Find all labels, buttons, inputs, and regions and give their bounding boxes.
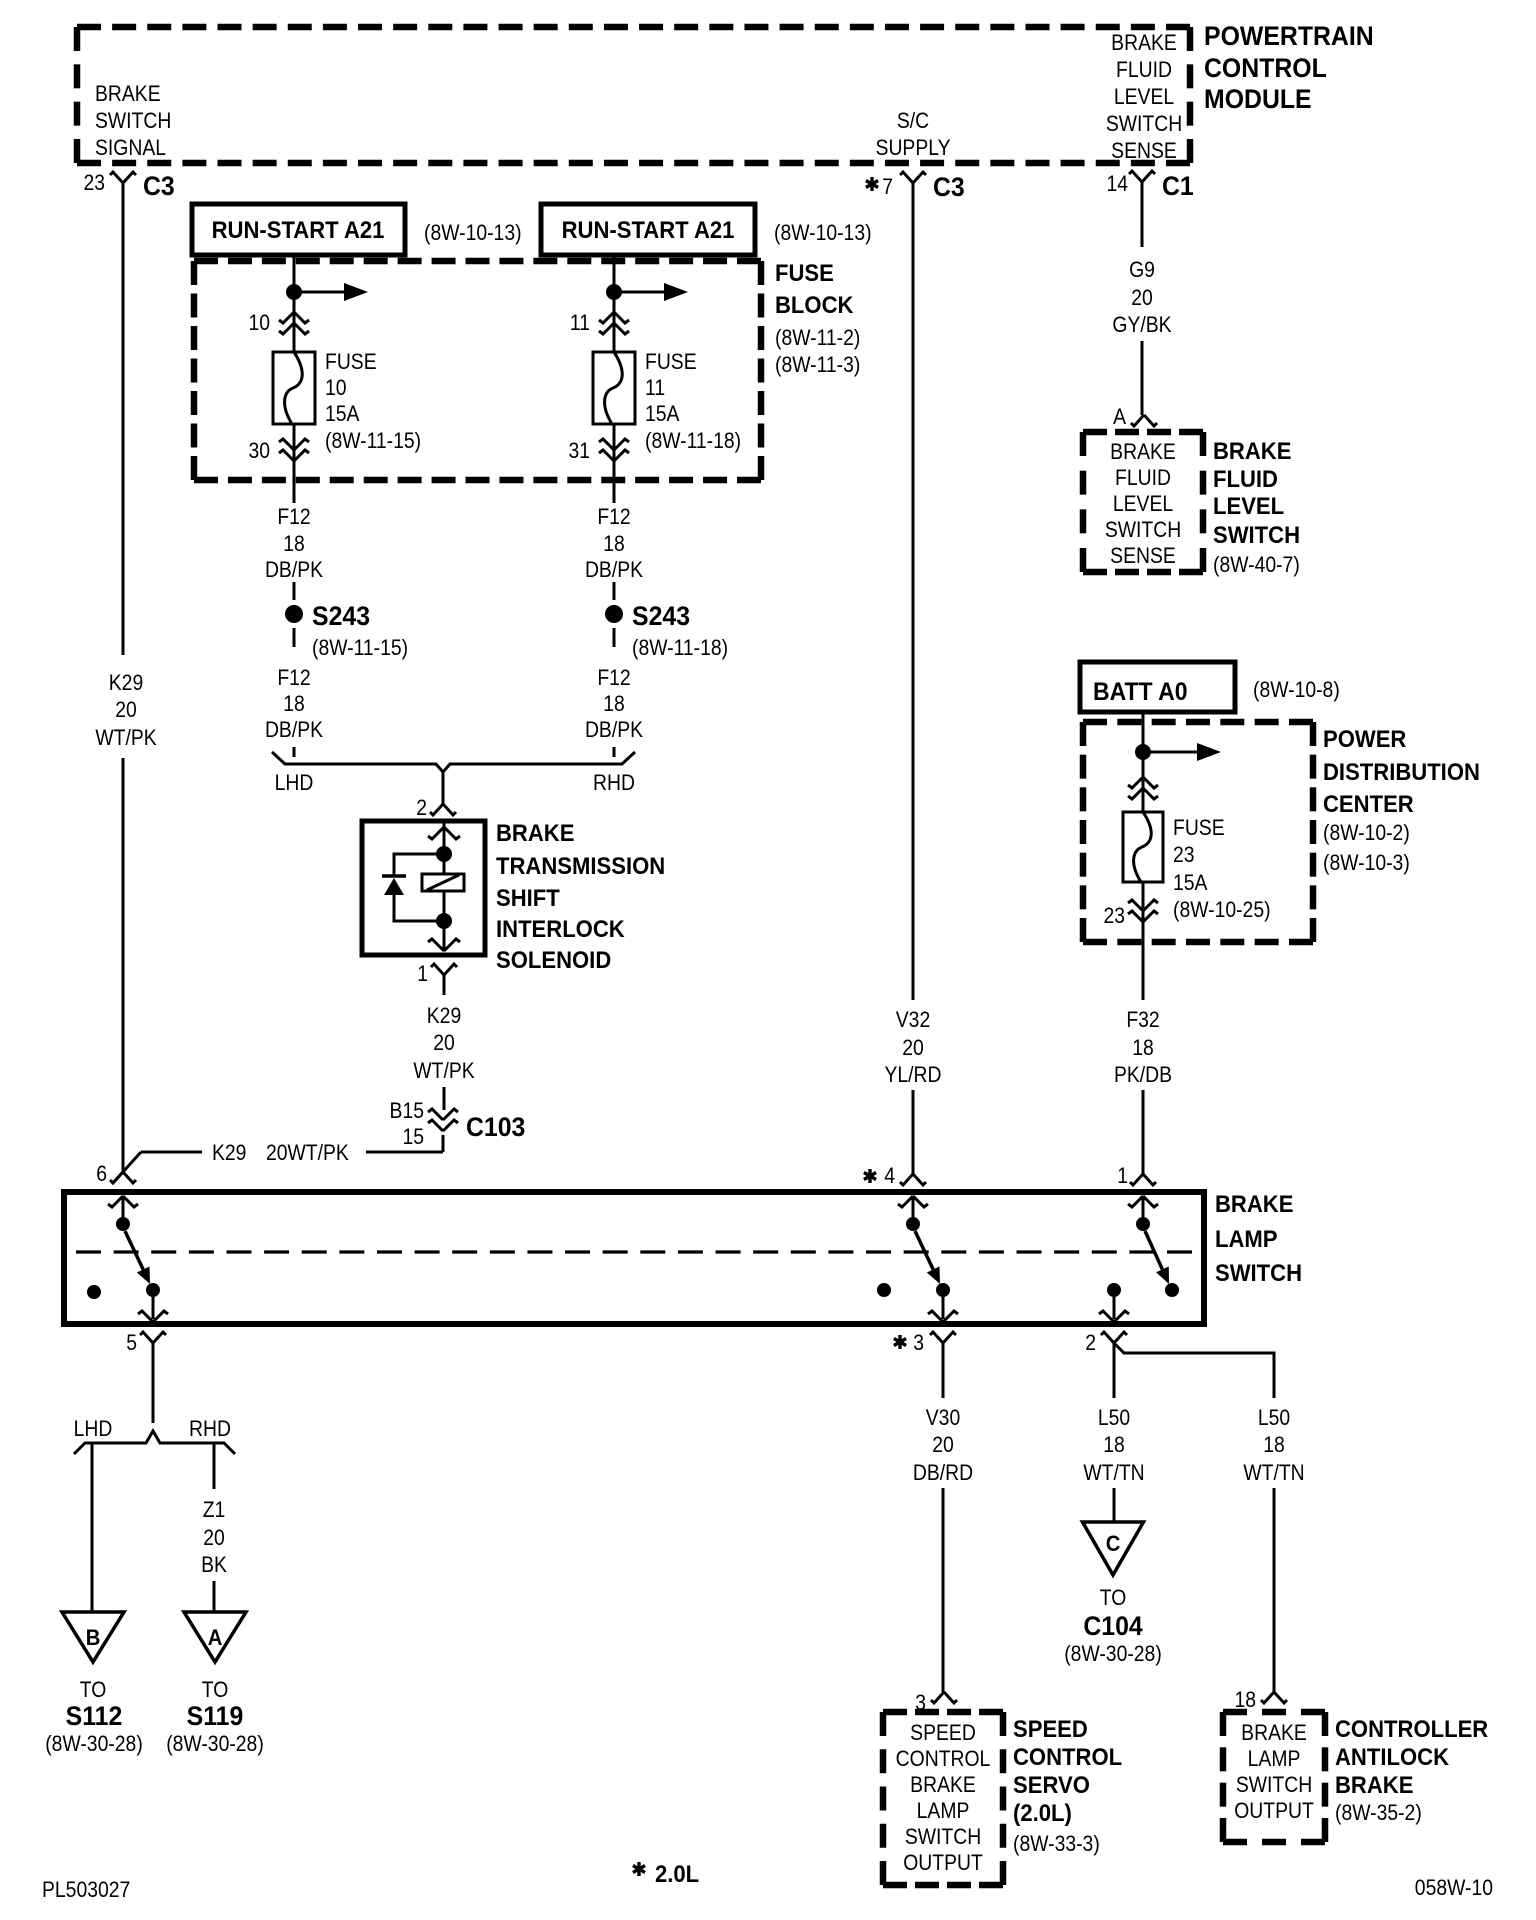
svg-text:CONTROLLER: CONTROLLER [1335,1715,1489,1742]
svg-text:A: A [1113,405,1126,429]
svg-text:SWITCH: SWITCH [95,109,171,133]
svg-text:18: 18 [1103,1433,1125,1457]
svg-text:15A: 15A [1173,871,1208,895]
svg-text:C3: C3 [933,173,965,202]
svg-text:(8W-30-28): (8W-30-28) [1064,1642,1162,1666]
svg-text:14: 14 [1106,172,1128,196]
svg-text:B15: B15 [390,1099,424,1123]
svg-text:18: 18 [283,532,305,556]
svg-text:DISTRIBUTION: DISTRIBUTION [1323,758,1480,785]
svg-text:(8W-30-28): (8W-30-28) [45,1732,143,1756]
svg-text:3: 3 [913,1331,924,1355]
svg-text:DB/PK: DB/PK [585,558,643,582]
svg-text:SOLENOID: SOLENOID [496,946,611,973]
svg-text:S119: S119 [187,1702,244,1731]
svg-text:BRAKE: BRAKE [1110,440,1176,464]
svg-text:F12: F12 [277,666,310,690]
svg-text:A: A [208,1626,223,1650]
svg-text:20: 20 [433,1031,455,1055]
svg-text:POWER: POWER [1323,725,1407,752]
svg-text:YL/RD: YL/RD [884,1063,941,1087]
svg-text:20: 20 [203,1526,225,1550]
svg-text:FLUID: FLUID [1213,465,1278,492]
svg-text:18: 18 [1263,1433,1285,1457]
svg-text:F12: F12 [277,505,310,529]
svg-text:20: 20 [902,1036,924,1060]
svg-text:1: 1 [1117,1164,1128,1188]
svg-text:18: 18 [1234,1688,1256,1712]
svg-text:(8W-10-13): (8W-10-13) [774,221,872,245]
svg-text:(8W-40-7): (8W-40-7) [1213,553,1300,577]
svg-text:PL503027: PL503027 [42,1878,130,1902]
svg-text:BRAKE: BRAKE [1241,1721,1307,1745]
svg-text:20: 20 [115,698,137,722]
svg-text:WT/PK: WT/PK [413,1059,474,1083]
svg-text:F12: F12 [597,666,630,690]
svg-text:10: 10 [248,311,270,335]
svg-text:C: C [1106,1532,1121,1556]
svg-text:18: 18 [603,692,625,716]
svg-text:23: 23 [1173,843,1195,867]
svg-text:TO: TO [1100,1586,1127,1610]
svg-text:S112: S112 [66,1702,123,1731]
svg-text:LEVEL: LEVEL [1213,492,1284,519]
svg-text:5: 5 [126,1331,137,1355]
svg-text:SERVO: SERVO [1013,1771,1090,1798]
svg-text:LEVEL: LEVEL [1113,492,1173,516]
svg-text:SWITCH: SWITCH [1106,112,1182,136]
svg-text:FUSE: FUSE [1173,816,1225,840]
svg-text:SWITCH: SWITCH [1105,518,1181,542]
svg-text:1: 1 [417,962,428,986]
svg-text:(8W-10-8): (8W-10-8) [1253,678,1340,702]
svg-text:SWITCH: SWITCH [1215,1259,1302,1286]
svg-text:WT/TN: WT/TN [1083,1461,1144,1485]
svg-text:(8W-35-2): (8W-35-2) [1335,1801,1422,1825]
svg-text:23: 23 [83,171,105,195]
svg-text:(8W-30-28): (8W-30-28) [166,1732,264,1756]
svg-text:F32: F32 [1126,1008,1159,1032]
svg-text:(8W-11-2): (8W-11-2) [775,326,860,350]
svg-text:TRANSMISSION: TRANSMISSION [496,852,665,879]
svg-text:10: 10 [325,376,347,400]
svg-text:BK: BK [201,1553,227,1577]
svg-text:RHD: RHD [593,771,635,795]
svg-text:DB/PK: DB/PK [265,718,323,742]
svg-text:WT/TN: WT/TN [1243,1461,1304,1485]
svg-text:BRAKE: BRAKE [1335,1771,1413,1798]
svg-text:(8W-11-18): (8W-11-18) [645,429,741,453]
svg-text:BATT A0: BATT A0 [1093,678,1188,706]
svg-text:LAMP: LAMP [1215,1225,1278,1252]
svg-text:CONTROL: CONTROL [1204,54,1327,83]
svg-text:31: 31 [568,439,590,463]
svg-text:15A: 15A [645,402,680,426]
svg-text:(8W-10-25): (8W-10-25) [1173,898,1271,922]
svg-text:DB/RD: DB/RD [913,1461,973,1485]
svg-text:K29: K29 [427,1004,461,1028]
svg-text:TO: TO [202,1678,229,1702]
svg-text:20: 20 [1131,286,1153,310]
svg-text:ANTILOCK: ANTILOCK [1335,1743,1449,1770]
svg-text:FUSE: FUSE [645,350,697,374]
svg-text:V30: V30 [926,1406,960,1430]
svg-text:MODULE: MODULE [1204,85,1312,114]
svg-text:(8W-33-3): (8W-33-3) [1013,1832,1100,1856]
svg-text:SHIFT: SHIFT [496,884,560,911]
svg-text:S243: S243 [632,602,690,631]
svg-text:OUTPUT: OUTPUT [903,1851,983,1875]
svg-text:GY/BK: GY/BK [1112,313,1171,337]
svg-text:F12: F12 [597,505,630,529]
svg-text:SIGNAL: SIGNAL [95,136,166,160]
svg-text:LAMP: LAMP [917,1799,970,1823]
svg-text:18: 18 [1132,1036,1154,1060]
svg-text:FLUID: FLUID [1115,466,1171,490]
svg-text:CONTROL: CONTROL [1013,1743,1122,1770]
svg-text:DB/PK: DB/PK [265,558,323,582]
svg-text:(8W-11-15): (8W-11-15) [312,636,408,660]
svg-text:G9: G9 [1129,258,1155,282]
svg-text:LHD: LHD [74,1417,113,1441]
svg-text:SWITCH: SWITCH [1236,1773,1312,1797]
svg-text:CONTROL: CONTROL [896,1747,991,1771]
svg-text:S/C: S/C [897,109,929,133]
svg-text:V32: V32 [896,1008,930,1032]
svg-text:6: 6 [96,1162,107,1186]
svg-text:OUTPUT: OUTPUT [1234,1799,1314,1823]
svg-text:WT/PK: WT/PK [95,726,156,750]
svg-text:(8W-11-3): (8W-11-3) [775,353,860,377]
svg-text:11: 11 [570,311,590,335]
svg-text:L50: L50 [1098,1406,1130,1430]
svg-text:DB/PK: DB/PK [585,718,643,742]
svg-text:BRAKE: BRAKE [1111,31,1177,55]
svg-text:L50: L50 [1258,1406,1290,1430]
svg-text:FUSE: FUSE [775,259,834,286]
svg-text:TO: TO [80,1678,107,1702]
svg-text:LHD: LHD [275,771,314,795]
svg-text:RHD: RHD [189,1417,231,1441]
svg-text:11: 11 [645,376,665,400]
svg-text:SENSE: SENSE [1111,139,1177,163]
svg-text:(8W-10-13): (8W-10-13) [424,221,522,245]
svg-text:15: 15 [402,1125,424,1149]
svg-text:2.0L: 2.0L [655,1860,699,1887]
svg-text:LEVEL: LEVEL [1114,85,1174,109]
svg-text:K29: K29 [212,1141,246,1165]
svg-text:BRAKE: BRAKE [95,82,161,106]
svg-text:RUN-START A21: RUN-START A21 [212,216,385,243]
svg-text:(8W-10-3): (8W-10-3) [1323,851,1410,875]
svg-text:(2.0L): (2.0L) [1013,1799,1072,1826]
svg-text:(8W-11-15): (8W-11-15) [325,429,421,453]
svg-text:SPEED: SPEED [1013,1715,1088,1742]
svg-text:C3: C3 [143,172,175,201]
svg-text:FLUID: FLUID [1116,58,1172,82]
svg-text:C103: C103 [466,1113,525,1142]
svg-text:BRAKE: BRAKE [1213,437,1291,464]
svg-text:FUSE: FUSE [325,350,377,374]
svg-text:SWITCH: SWITCH [905,1825,981,1849]
svg-text:RUN-START A21: RUN-START A21 [562,216,735,243]
svg-text:B: B [86,1626,101,1650]
svg-text:BRAKE: BRAKE [496,819,574,846]
svg-text:7: 7 [882,175,893,199]
svg-text:2: 2 [1085,1331,1096,1355]
svg-text:23: 23 [1103,904,1125,928]
svg-text:15A: 15A [325,402,360,426]
svg-text:BRAKE: BRAKE [910,1773,976,1797]
svg-text:LAMP: LAMP [1248,1747,1301,1771]
svg-text:SUPPLY: SUPPLY [876,136,951,160]
svg-text:058W-10: 058W-10 [1415,1876,1493,1900]
svg-text:Z1: Z1 [203,1498,226,1522]
svg-text:S243: S243 [312,602,370,631]
svg-text:PK/DB: PK/DB [1114,1063,1172,1087]
svg-text:INTERLOCK: INTERLOCK [496,915,625,942]
svg-text:BRAKE: BRAKE [1215,1190,1293,1217]
svg-text:4: 4 [884,1164,895,1188]
svg-text:SPEED: SPEED [910,1721,976,1745]
svg-text:POWERTRAIN: POWERTRAIN [1204,22,1374,51]
svg-text:C104: C104 [1083,1612,1143,1641]
svg-text:2: 2 [416,796,427,820]
svg-text:18: 18 [283,692,305,716]
svg-text:BLOCK: BLOCK [775,291,854,318]
svg-text:SWITCH: SWITCH [1213,521,1300,548]
svg-text:CENTER: CENTER [1323,790,1414,817]
svg-text:C1: C1 [1162,172,1194,201]
svg-text:20: 20 [932,1433,954,1457]
svg-text:SENSE: SENSE [1110,544,1176,568]
svg-text:(8W-10-2): (8W-10-2) [1323,821,1410,845]
svg-text:20WT/PK: 20WT/PK [266,1141,349,1165]
svg-text:30: 30 [248,439,270,463]
svg-text:K29: K29 [109,671,143,695]
svg-text:(8W-11-18): (8W-11-18) [632,636,728,660]
svg-text:18: 18 [603,532,625,556]
